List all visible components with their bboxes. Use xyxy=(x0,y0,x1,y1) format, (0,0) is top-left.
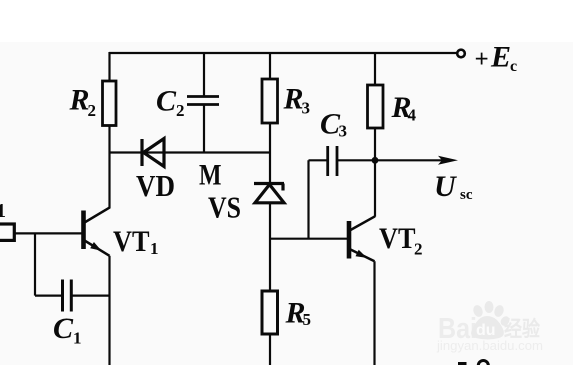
svg-text:1: 1 xyxy=(150,239,159,258)
svg-text:R: R xyxy=(69,84,90,117)
svg-text:1: 1 xyxy=(73,329,82,348)
wire C2 bottom drop xyxy=(203,105,205,153)
svg-text:VT: VT xyxy=(379,222,416,255)
wire R5 to bottom edge xyxy=(269,334,271,365)
svg-text:c: c xyxy=(510,58,517,75)
svg-text:2: 2 xyxy=(88,101,97,120)
wire VT2 base horizontal xyxy=(270,238,347,240)
wire C2 top drop xyxy=(203,53,205,96)
svg-text:VS: VS xyxy=(208,190,241,225)
wire C1 right lead xyxy=(73,295,110,297)
svg-text:5: 5 xyxy=(303,310,312,329)
wire C1 left lead xyxy=(35,295,62,297)
svg-text:VT: VT xyxy=(113,225,150,258)
resistor R2 xyxy=(103,81,117,126)
svg-text:du: du xyxy=(476,322,496,339)
wire R3 to VS xyxy=(269,123,271,183)
arrow VT1 emitter xyxy=(90,242,101,251)
resistor R5 xyxy=(262,291,278,334)
resistor R3 xyxy=(262,79,278,123)
svg-text:M: M xyxy=(199,159,222,192)
svg-text:VD: VD xyxy=(136,168,175,203)
svg-text:sc: sc xyxy=(460,187,473,203)
watermark paw xyxy=(471,301,511,340)
wire C3 left lead xyxy=(309,159,327,161)
svg-text:C: C xyxy=(156,85,177,118)
watermark Baidu logo text xyxy=(436,301,543,353)
svg-text:经验: 经验 xyxy=(504,317,540,341)
capacitor C1 xyxy=(63,280,72,312)
wire output horizontal xyxy=(375,159,450,161)
junction dot output node xyxy=(372,157,379,164)
resistor R4 xyxy=(368,85,384,128)
svg-text:E: E xyxy=(490,41,511,74)
capacitor C3 xyxy=(328,146,337,176)
svg-text:C: C xyxy=(53,312,74,345)
wire VS to R5 xyxy=(269,203,271,292)
svg-text:+: + xyxy=(475,46,489,73)
wire top supply rail xyxy=(109,52,457,54)
diode VD xyxy=(142,139,164,167)
svg-text:U: U xyxy=(434,170,457,203)
svg-text:2: 2 xyxy=(414,240,423,259)
wire C3 right lead xyxy=(338,159,374,161)
arrow output Usc xyxy=(438,156,458,165)
svg-text:4: 4 xyxy=(408,106,417,125)
arrow VT2 emitter xyxy=(356,250,368,258)
bottom edge cut glyph dash xyxy=(458,362,467,365)
wire node M horizontal (VD wire) xyxy=(109,151,270,153)
wire R4 to VT2 collector xyxy=(374,128,376,217)
svg-text:3: 3 xyxy=(302,99,311,118)
wire VT2 emitter vertical xyxy=(373,261,375,365)
wire left vertical lower (R2 to VT1 collector) xyxy=(108,126,110,209)
transistor VT1 xyxy=(84,207,111,256)
svg-text:2: 2 xyxy=(176,101,185,120)
wire R3 top drop xyxy=(269,53,271,80)
svg-text:1: 1 xyxy=(0,200,6,222)
resistor R1 partial at left edge xyxy=(0,224,14,240)
wire VT1 emitter vertical xyxy=(108,256,110,365)
svg-text:R: R xyxy=(283,83,304,116)
capacitor C2 xyxy=(187,97,219,105)
transistor VT2 xyxy=(349,216,375,261)
wire left vertical upper (rail to R2) xyxy=(108,52,110,82)
svg-text:3: 3 xyxy=(339,122,348,141)
wire C3 left drop xyxy=(307,160,309,238)
terminal +Ec circle xyxy=(457,50,465,58)
svg-text:jingyan.baidu.com: jingyan.baidu.com xyxy=(436,339,543,353)
wire VT1 base lead xyxy=(13,232,82,234)
wire C1 left drop xyxy=(34,233,36,295)
bottom edge cut glyph circle top xyxy=(478,361,488,365)
zener diode VS xyxy=(254,184,284,203)
wire R4 top drop xyxy=(374,53,376,86)
